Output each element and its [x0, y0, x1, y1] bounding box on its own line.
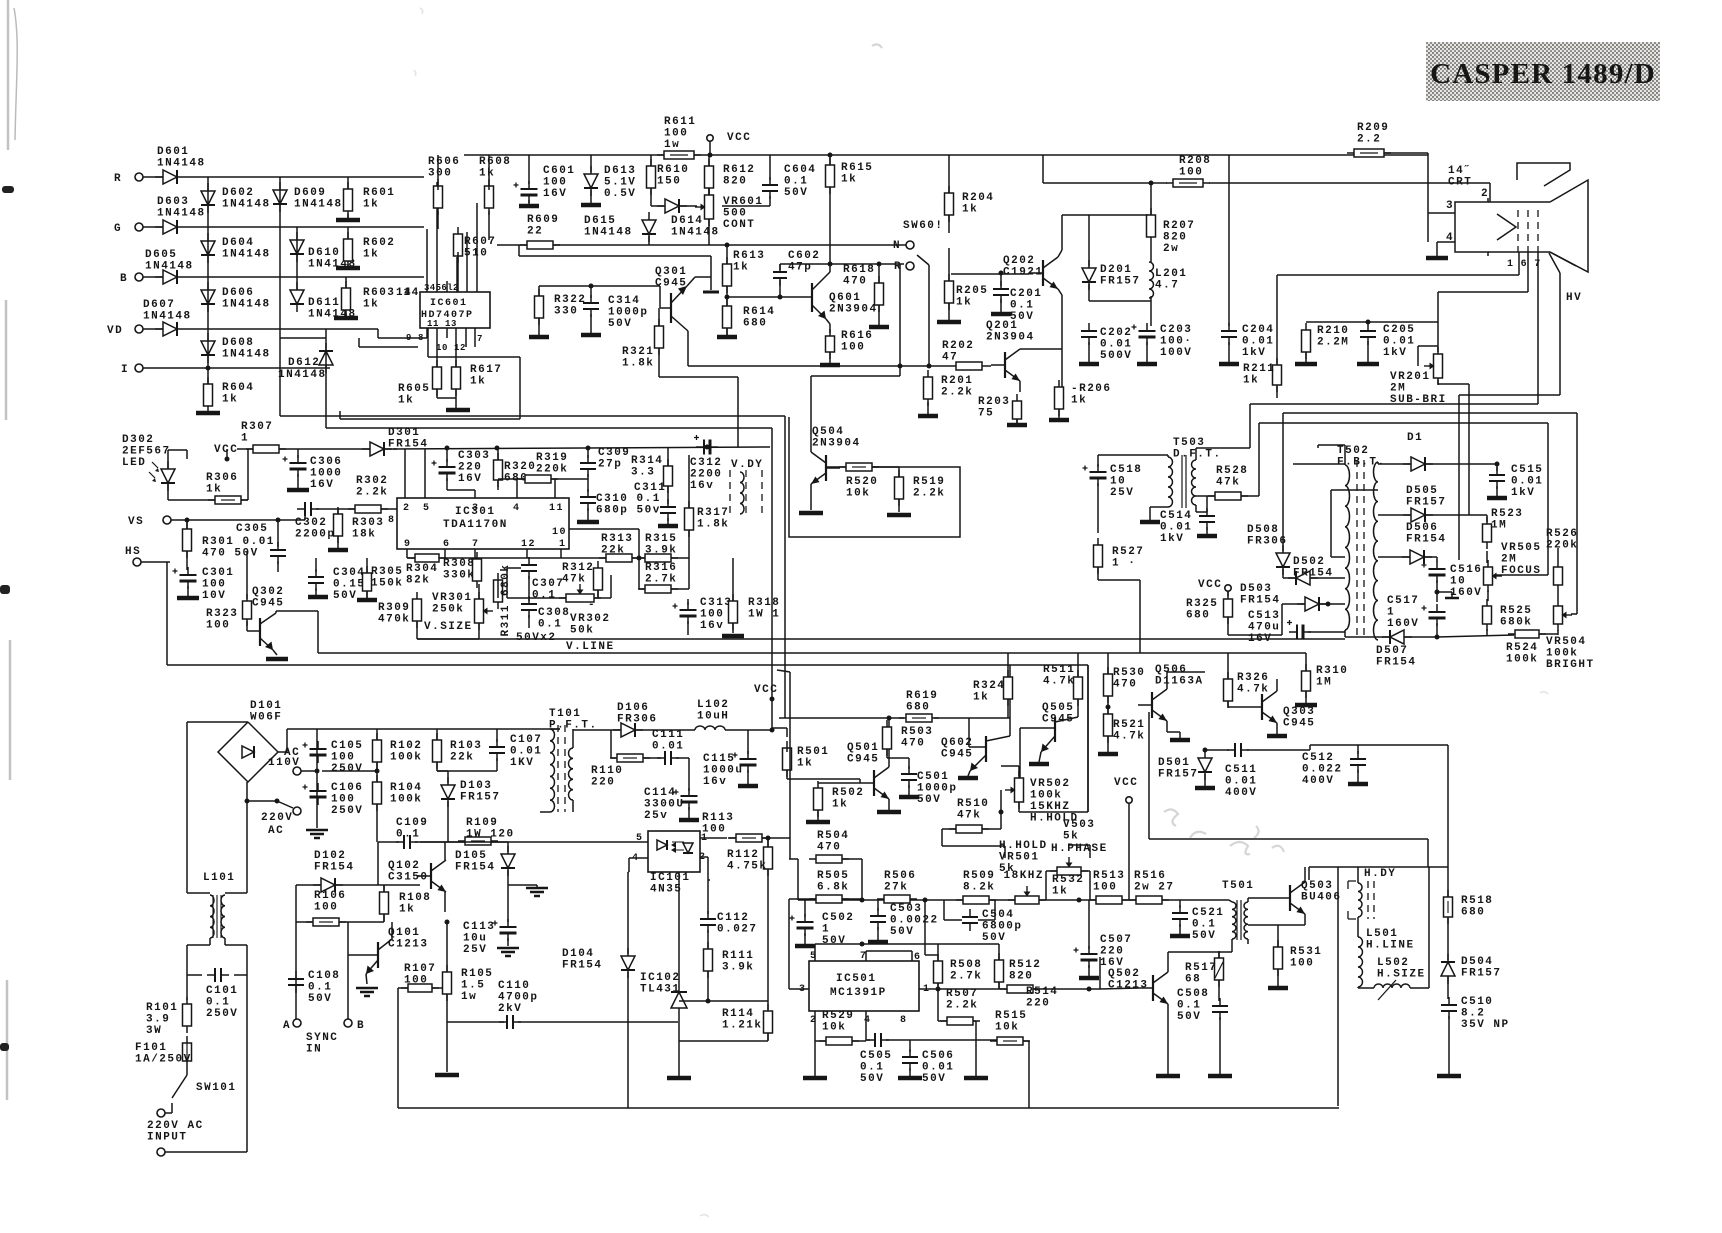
- svg-text:0.1: 0.1: [1192, 919, 1216, 931]
- svg-text:150: 150: [657, 176, 681, 188]
- svg-text:0.1: 0.1: [1010, 300, 1034, 312]
- svg-text:L201: L201: [1155, 268, 1187, 280]
- transformer T503: [1140, 437, 1250, 522]
- svg-text:50V: 50V: [333, 590, 357, 602]
- ground R531: [1268, 986, 1288, 991]
- ground C601: [519, 204, 539, 209]
- svg-text:0.01: 0.01: [922, 1062, 954, 1074]
- svg-text:R104: R104: [390, 782, 422, 794]
- svg-text:SUB-BRI: SUB-BRI: [1390, 394, 1447, 406]
- svg-text:R506: R506: [884, 870, 916, 882]
- resistor R317: [685, 501, 730, 537]
- svg-text:VCC: VCC: [1198, 579, 1222, 591]
- pot VR501: [999, 840, 1048, 904]
- resistor R508: [934, 954, 983, 990]
- svg-text:50Vx2: 50Vx2: [516, 632, 557, 644]
- wire C113: [507, 885, 509, 946]
- wire R307 line: [237, 448, 397, 450]
- svg-text:100: 100: [202, 579, 226, 591]
- svg-text:1N4148: 1N4148: [222, 299, 271, 311]
- wire VR301: [417, 584, 479, 639]
- svg-text:R511: R511: [1043, 664, 1075, 676]
- svg-text:22k: 22k: [601, 545, 625, 557]
- svg-text:1kV: 1kV: [1511, 487, 1535, 499]
- svg-text:400V: 400V: [1225, 787, 1257, 799]
- svg-text:VCC: VCC: [1114, 777, 1138, 789]
- svg-text:Q101: Q101: [388, 927, 420, 939]
- svg-text:8: 8: [388, 515, 396, 526]
- capacitor C307: [521, 557, 564, 602]
- svg-text:3.9k: 3.9k: [645, 545, 677, 557]
- svg-text:R207: R207: [1163, 220, 1195, 232]
- svg-text:C515: C515: [1511, 464, 1543, 476]
- svg-text:VR505: VR505: [1501, 542, 1542, 554]
- svg-text:C945: C945: [847, 754, 879, 766]
- capacitor C109: [396, 817, 428, 849]
- ground R303: [328, 536, 348, 550]
- resistor R302: [348, 475, 388, 513]
- transformer T501: [1219, 880, 1254, 952]
- diode D604: [201, 233, 271, 263]
- ground R602: [336, 264, 360, 268]
- transistor Q302: [247, 586, 318, 655]
- wire crt pin3: [1428, 212, 1455, 214]
- svg-text:C511: C511: [1225, 764, 1257, 776]
- resistor R616: [826, 329, 874, 359]
- svg-text:V.LINE: V.LINE: [566, 641, 615, 653]
- svg-text:C514: C514: [1160, 510, 1192, 522]
- svg-text:1k: 1k: [363, 249, 379, 261]
- transistor Q102: [388, 860, 446, 892]
- resistor R527: [1094, 538, 1145, 574]
- svg-text:C508: C508: [1177, 988, 1209, 1000]
- capacitor C511: [1225, 743, 1257, 799]
- ground R318: [722, 634, 744, 639]
- wire TL431: [679, 872, 768, 1076]
- resistor R109: [458, 817, 515, 845]
- svg-text:R323: R323: [206, 608, 238, 620]
- svg-text:2: 2: [1481, 188, 1489, 200]
- wire C602: [778, 264, 783, 300]
- wire R606 col: [438, 155, 489, 240]
- svg-text:VS: VS: [128, 516, 144, 528]
- resistor R517: [1185, 951, 1224, 987]
- svg-text:0.1: 0.1: [532, 590, 556, 602]
- svg-text:2EF567: 2EF567: [122, 446, 171, 458]
- capacitor C114: [644, 787, 698, 822]
- resistor R104: [373, 775, 423, 811]
- wire C305: [185, 518, 281, 573]
- wire R615 col: [829, 155, 831, 264]
- resistor R518: [1444, 890, 1494, 924]
- wire fbt right top: [1378, 462, 1411, 464]
- resistor R113: [702, 812, 769, 842]
- svg-text:C1213: C1213: [1108, 980, 1149, 992]
- svg-text:HS: HS: [125, 546, 141, 558]
- label CRT: [1448, 165, 1472, 189]
- wire col2b: [296, 227, 298, 305]
- svg-text:R309: R309: [378, 602, 410, 614]
- svg-text:R102: R102: [390, 740, 422, 752]
- wire hdrive feed: [1149, 712, 1428, 867]
- svg-text:C110: C110: [498, 980, 530, 992]
- svg-text:C314: C314: [608, 295, 640, 307]
- wire plusB rail: [573, 728, 775, 733]
- svg-text:INPUT: INPUT: [147, 1132, 188, 1144]
- svg-text:Q302: Q302: [252, 586, 284, 598]
- resistor R323: [206, 594, 252, 632]
- capacitor C521: [1172, 905, 1224, 942]
- resistor R614: [723, 299, 776, 335]
- svg-text:2: 2: [403, 503, 411, 514]
- wire Q502: [1100, 952, 1219, 1076]
- pot VR601: [695, 188, 764, 231]
- svg-text:R611: R611: [664, 116, 696, 128]
- wire R526: [1557, 548, 1559, 599]
- svg-text:1k: 1k: [1243, 375, 1259, 387]
- svg-text:C204: C204: [1242, 324, 1274, 336]
- svg-text:R504: R504: [817, 830, 849, 842]
- wire D105: [508, 842, 537, 885]
- svg-text:D604: D604: [222, 237, 254, 249]
- wire crt pin2: [1448, 183, 1490, 202]
- resistor R301: [183, 522, 275, 560]
- svg-text:100k: 100k: [390, 794, 422, 806]
- svg-text:R313: R313: [601, 533, 633, 545]
- wire h rail left: [789, 859, 798, 900]
- wire Q503 emi: [1278, 914, 1305, 925]
- svg-text:2kV: 2kV: [498, 1003, 522, 1015]
- ground R201: [918, 402, 938, 416]
- wire C314: [590, 286, 592, 333]
- ground R603: [334, 313, 358, 318]
- svg-text:250V: 250V: [331, 763, 363, 775]
- svg-text:R609: R609: [527, 214, 559, 226]
- svg-text:T101: T101: [549, 708, 581, 720]
- wire R110: [611, 730, 661, 758]
- svg-text:R525: R525: [1500, 605, 1532, 617]
- artifact smudges: [414, 8, 1548, 1217]
- svg-text:HV: HV: [1566, 292, 1582, 304]
- svg-text:C205: C205: [1383, 324, 1415, 336]
- svg-text:D612: D612: [288, 357, 320, 369]
- svg-text:1kV: 1kV: [1242, 347, 1266, 359]
- resistor R529: [819, 1010, 859, 1045]
- svg-text:6.8k: 6.8k: [817, 882, 849, 894]
- resistor R102: [373, 733, 423, 769]
- wire D504: [1447, 977, 1449, 999]
- diode D507: [1376, 630, 1417, 669]
- svg-text:Q201: Q201: [986, 320, 1018, 332]
- svg-text:3: 3: [1446, 200, 1454, 212]
- svg-text:R204: R204: [962, 192, 994, 204]
- wire pin10: [569, 529, 639, 558]
- diode D602: [201, 183, 271, 213]
- transistor Q502: [1108, 968, 1168, 1004]
- svg-text:D502: D502: [1293, 556, 1325, 568]
- svg-text:100: 100: [314, 902, 338, 914]
- wire R505: [789, 898, 862, 900]
- wire R322: [538, 286, 540, 335]
- svg-text:220: 220: [591, 777, 615, 789]
- svg-text:35V NP: 35V NP: [1461, 1019, 1510, 1031]
- svg-text:R305: R305: [371, 566, 403, 578]
- svg-text:1.21k: 1.21k: [722, 1020, 763, 1032]
- resistor R606: [428, 156, 460, 215]
- resistor R316: [638, 562, 678, 593]
- resistor R111: [704, 942, 755, 978]
- svg-text:1000p: 1000p: [608, 307, 649, 319]
- svg-text:Q504: Q504: [812, 426, 844, 438]
- wire D505 line: [1378, 515, 1487, 522]
- wire C204: [1228, 155, 1230, 362]
- wire Q601 emi: [826, 319, 830, 333]
- wire R507: [938, 989, 976, 1040]
- svg-text:1: 1: [559, 539, 567, 550]
- svg-text:R310: R310: [1316, 665, 1348, 677]
- wire Q505 base: [1019, 728, 1021, 782]
- svg-text:C308: C308: [538, 607, 570, 619]
- diode D603: [155, 196, 206, 234]
- svg-text:R317: R317: [697, 507, 729, 519]
- diode D506: [1402, 522, 1447, 564]
- svg-text:IC601: IC601: [430, 298, 468, 309]
- capacitor C204: [1221, 323, 1274, 359]
- pot VR201: [1390, 347, 1447, 406]
- svg-text:150k: 150k: [371, 578, 403, 590]
- resistor R609: [520, 214, 560, 249]
- svg-text:C507: C507: [1100, 934, 1132, 946]
- svg-text:50V: 50V: [917, 794, 941, 806]
- ground crt pin4: [1426, 256, 1448, 261]
- capacitor C112: [700, 911, 758, 936]
- svg-text:R530: R530: [1113, 667, 1145, 679]
- ground R521: [1098, 752, 1118, 757]
- resistor R604: [204, 377, 255, 413]
- svg-text:4N35: 4N35: [650, 884, 682, 896]
- wire bright line: [1283, 413, 1577, 614]
- svg-text:H.DY: H.DY: [1364, 868, 1396, 880]
- svg-text:R610: R610: [657, 164, 689, 176]
- resistor R511: [1043, 664, 1083, 706]
- wire R323: [246, 551, 248, 631]
- svg-text:VCC: VCC: [214, 444, 238, 456]
- svg-text:FR154: FR154: [455, 862, 496, 874]
- svg-text:C513: C513: [1248, 610, 1280, 622]
- resistor R305: [363, 566, 404, 598]
- transistor Q602: [941, 718, 1010, 778]
- switch SW101: [165, 1068, 237, 1113]
- svg-text:0.1: 0.1: [538, 619, 562, 631]
- wire R108: [383, 885, 385, 922]
- resistor R531: [1274, 940, 1323, 976]
- svg-text:R501: R501: [797, 746, 829, 758]
- svg-text:CASPER 1489/D: CASPER 1489/D: [1430, 58, 1656, 90]
- wire R520: [826, 466, 899, 468]
- svg-text:C503: C503: [890, 903, 922, 915]
- svg-text:IC501: IC501: [836, 973, 877, 985]
- svg-text:R205: R205: [956, 285, 988, 297]
- svg-text:R605: R605: [398, 383, 430, 395]
- svg-text:1M: 1M: [1316, 677, 1332, 689]
- resistor R310: [1302, 664, 1349, 698]
- wire col1: [206, 177, 211, 386]
- svg-text:FOCUS: FOCUS: [1501, 565, 1542, 577]
- power VCC d503: [1198, 579, 1231, 596]
- svg-text:3: 3: [472, 503, 480, 514]
- svg-text:W06F: W06F: [250, 712, 282, 724]
- diode D104: [562, 948, 635, 978]
- wire R111: [707, 971, 709, 1001]
- wire N line: [497, 244, 906, 246]
- svg-text:R513: R513: [1093, 870, 1125, 882]
- resistor R322: [535, 289, 587, 325]
- svg-text:Q202: Q202: [1003, 255, 1035, 267]
- wire C115: [738, 730, 758, 786]
- resistor R618: [843, 264, 884, 312]
- ground R519: [887, 513, 911, 518]
- svg-text:C1921: C1921: [1003, 267, 1044, 279]
- svg-text:2.2M: 2.2M: [1317, 337, 1349, 349]
- resistor R107: [401, 963, 439, 992]
- capacitor C308: [516, 596, 570, 644]
- svg-text:IC101: IC101: [650, 872, 691, 884]
- svg-text:1k: 1k: [962, 204, 978, 216]
- wire R102 col: [322, 729, 380, 842]
- diode D615: [584, 212, 656, 242]
- wire R209: [1385, 153, 1428, 242]
- wire R532: [1046, 845, 1090, 900]
- svg-text:SW60!: SW60!: [903, 220, 944, 232]
- power VCC mid2: [1114, 777, 1138, 900]
- wire R515: [976, 1040, 1029, 1108]
- crt yoke dashes: [1518, 210, 1538, 252]
- artifact left edge: [0, 0, 17, 1100]
- wire C110 line: [447, 1021, 678, 1023]
- resistor R312: [562, 561, 603, 597]
- svg-text:4.75k: 4.75k: [727, 861, 768, 873]
- svg-text:330k: 330k: [443, 570, 475, 582]
- wire opto pins: [420, 838, 727, 880]
- svg-text:R608: R608: [479, 156, 511, 168]
- capacitor C312: [690, 435, 722, 492]
- svg-text:VR301: VR301: [432, 592, 473, 604]
- svg-text:R211: R211: [1243, 363, 1275, 375]
- wire Q601 col: [828, 262, 833, 273]
- svg-text:1W 1: 1W 1: [748, 609, 780, 621]
- svg-text:H.LINE: H.LINE: [1366, 940, 1415, 952]
- label C513: [1248, 610, 1280, 645]
- svg-text:R512: R512: [1009, 959, 1041, 971]
- wire R501: [787, 748, 860, 779]
- wire t502 left top: [1293, 463, 1345, 465]
- resistor R504: [809, 830, 849, 863]
- svg-text:D101: D101: [250, 700, 282, 712]
- wire D201: [1088, 215, 1090, 301]
- diode D606: [201, 282, 271, 312]
- svg-text:50V: 50V: [982, 932, 1006, 944]
- svg-text:680: 680: [906, 702, 930, 714]
- resistor R326: [1224, 672, 1270, 708]
- svg-text:2w: 2w: [1163, 243, 1179, 255]
- svg-text:B: B: [120, 273, 128, 285]
- svg-text:C303: C303: [458, 450, 490, 462]
- svg-text:R619: R619: [906, 690, 938, 702]
- wire R306: [168, 449, 248, 500]
- ground C510: [1437, 1074, 1461, 1079]
- svg-text:100: 100: [700, 609, 724, 621]
- svg-text:R615: R615: [841, 162, 873, 174]
- svg-text:680p 50v: 680p 50v: [596, 505, 661, 517]
- svg-text:R516: R516: [1134, 870, 1166, 882]
- svg-text:4.7k: 4.7k: [1043, 676, 1075, 688]
- svg-text:FR154: FR154: [562, 960, 603, 972]
- wire focus line: [1259, 423, 1548, 575]
- wire C313: [687, 599, 689, 635]
- svg-text:G: G: [114, 223, 122, 235]
- inductor L502: [1358, 957, 1429, 1000]
- capacitor C108: [288, 970, 340, 1005]
- capacitor C504: [962, 909, 1023, 944]
- resistor R512: [995, 953, 1042, 989]
- svg-text:R531: R531: [1290, 946, 1322, 958]
- wire R206: [1061, 349, 1063, 387]
- capacitor C101: [206, 968, 238, 1020]
- svg-text:220: 220: [1100, 946, 1124, 958]
- svg-text:R112: R112: [727, 849, 759, 861]
- label 220V AC: [245, 782, 302, 837]
- svg-text:B: B: [357, 1020, 365, 1032]
- svg-text:C202: C202: [1100, 327, 1132, 339]
- svg-text:D302: D302: [122, 434, 154, 446]
- wire HV: [1459, 253, 1560, 560]
- svg-text:27k: 27k: [884, 882, 908, 894]
- wire bridge right: [278, 729, 560, 752]
- wire D613: [590, 155, 592, 203]
- svg-text:1w: 1w: [664, 139, 680, 151]
- svg-text:R523: R523: [1491, 508, 1523, 520]
- svg-text:1N4148: 1N4148: [222, 349, 271, 361]
- wire T101 right: [569, 729, 574, 812]
- wire bus2 drop: [777, 670, 790, 859]
- svg-text:1N4148: 1N4148: [145, 261, 194, 273]
- svg-text:250k: 250k: [432, 604, 464, 616]
- diode D607: [143, 299, 192, 336]
- svg-text:100: 100: [1179, 167, 1203, 179]
- svg-text:FR306: FR306: [1247, 536, 1288, 548]
- capacitor C115: [703, 751, 757, 788]
- svg-text:100: 100: [664, 128, 688, 140]
- svg-text:D507: D507: [1376, 645, 1408, 657]
- wire R202 line: [688, 364, 991, 369]
- svg-text:C106: C106: [331, 782, 363, 794]
- svg-text:-: -: [588, 599, 596, 611]
- svg-text:C203: C203: [1160, 324, 1192, 336]
- diode D502a: [1288, 556, 1334, 585]
- resistor R112: [727, 840, 773, 876]
- svg-text:FR157: FR157: [1461, 968, 1502, 980]
- diode D613 zener: [584, 165, 636, 200]
- wire R line: [185, 176, 424, 178]
- wire C512: [1310, 745, 1448, 784]
- capacitor C302: [295, 502, 336, 541]
- svg-text:C310 0.1: C310 0.1: [596, 493, 661, 505]
- svg-text:V.SIZE: V.SIZE: [424, 621, 473, 633]
- svg-text:47k: 47k: [1216, 477, 1240, 489]
- svg-text:0.01: 0.01: [1511, 476, 1543, 488]
- svg-text:R202: R202: [942, 340, 974, 352]
- wire C112: [708, 880, 710, 948]
